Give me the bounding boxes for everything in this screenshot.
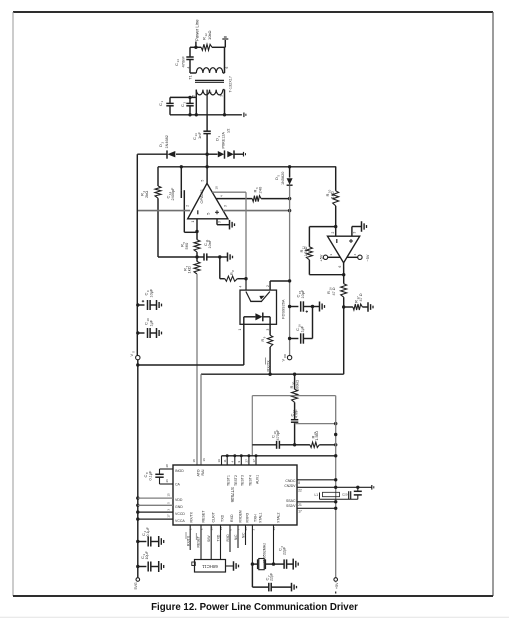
ground at C7 bbox=[292, 583, 297, 592]
capacitor C14 470nF bbox=[186, 57, 193, 60]
svg-text:T1: T1 bbox=[188, 74, 193, 79]
wire right pin3 bbox=[297, 501, 336, 503]
label +5V bbox=[319, 254, 323, 261]
ground at C3 bbox=[159, 561, 164, 572]
U1 label 5 inside bbox=[207, 213, 211, 215]
svg-text:RX/TX: RX/TX bbox=[266, 360, 270, 372]
label 5VG bbox=[134, 582, 138, 589]
IC U3 ST7536 body bbox=[173, 465, 297, 525]
svg-text:CA: CA bbox=[175, 482, 181, 486]
terminal CN bbox=[372, 485, 374, 490]
U1 minus mark bbox=[197, 210, 199, 214]
net label Y0 bbox=[234, 534, 238, 540]
capacitor C4 0.1uF bbox=[138, 537, 159, 547]
resistor R8 gate bbox=[220, 257, 246, 281]
svg-text:2: 2 bbox=[208, 92, 212, 94]
ground at C4 bbox=[159, 536, 164, 547]
label R11 bbox=[299, 246, 308, 257]
svg-text:4: 4 bbox=[186, 67, 190, 69]
U3 pin17 number bbox=[298, 509, 302, 513]
svg-text:ATO: ATO bbox=[196, 469, 200, 476]
label C13 bbox=[192, 132, 202, 140]
svg-text:100kΩ: 100kΩ bbox=[296, 380, 300, 391]
capacitor C12 2400pF bbox=[181, 167, 184, 233]
svg-text:21: 21 bbox=[298, 503, 302, 507]
crystal Y1 11.0592MHz bbox=[252, 559, 273, 570]
svg-text:10nF: 10nF bbox=[208, 239, 212, 248]
terminal line out (right) bbox=[244, 113, 246, 118]
svg-text:−5V: −5V bbox=[366, 254, 370, 261]
terminal +5V bbox=[334, 578, 338, 582]
svg-text:Figure 12. Power Line Communic: Figure 12. Power Line Communication Driv… bbox=[151, 602, 358, 613]
U2 pin3 number bbox=[352, 232, 356, 234]
svg-text:TEST3: TEST3 bbox=[241, 475, 245, 486]
U1 pin3s number bbox=[224, 205, 228, 207]
label R9 bbox=[261, 336, 266, 341]
U3 supply wires bbox=[138, 498, 173, 519]
label -5V bbox=[366, 254, 370, 261]
svg-text:1⁄2: 1⁄2 bbox=[227, 129, 231, 133]
net label S/W bbox=[207, 535, 211, 542]
wire right pin1 bbox=[297, 479, 336, 481]
svg-text:N/C: N/C bbox=[234, 534, 238, 540]
Q1 mosfet symbol bbox=[246, 292, 270, 302]
wire right pin4 bbox=[297, 507, 336, 509]
U2 pin2 number bbox=[331, 232, 335, 234]
svg-text:0.1μF: 0.1μF bbox=[146, 526, 150, 536]
terminal VS bbox=[136, 355, 140, 359]
ground at C11 bbox=[220, 253, 233, 262]
wire to coupling cap bbox=[189, 47, 191, 57]
U3 pin28 number bbox=[165, 464, 169, 468]
svg-text:INGD: INGD bbox=[175, 469, 184, 473]
U1 pin10 number bbox=[214, 186, 218, 190]
transistor Q1 FDS9926A package bbox=[240, 290, 277, 324]
label 68HC11 bbox=[202, 564, 218, 569]
transformer T1 bbox=[190, 47, 225, 115]
U1 plus mark bbox=[215, 210, 219, 214]
label C3 bbox=[140, 550, 149, 559]
svg-text:DD: DD bbox=[283, 354, 287, 358]
label C9 bbox=[143, 288, 153, 297]
wire XTAL2 pin bbox=[272, 525, 275, 566]
wire U2 +IN to ground bbox=[352, 227, 362, 237]
U3 left pin names bbox=[175, 469, 185, 523]
inductor L1 bbox=[323, 492, 340, 496]
Q1 pin1 number bbox=[238, 329, 242, 331]
net label Y5 bbox=[242, 532, 246, 538]
svg-text:P6KE12A: P6KE12A bbox=[222, 132, 226, 149]
svg-text:47 Ω: 47 Ω bbox=[332, 287, 336, 295]
svg-text:3: 3 bbox=[352, 232, 356, 234]
svg-text:22pF: 22pF bbox=[283, 546, 287, 555]
U3 pin8 number bbox=[298, 481, 300, 485]
label R8 bbox=[230, 270, 235, 275]
capacitor C13 1nF bbox=[203, 115, 210, 154]
svg-text:C20: C20 bbox=[342, 492, 348, 496]
svg-text:XTAL2: XTAL2 bbox=[277, 513, 281, 523]
U2 plus mark bbox=[349, 239, 353, 243]
svg-text:2kΩ: 2kΩ bbox=[144, 191, 149, 198]
wire RXPO pin bbox=[245, 525, 247, 545]
caption bbox=[151, 602, 358, 613]
net label RXD bbox=[226, 534, 230, 542]
wire node A bbox=[158, 255, 199, 258]
wire U1 feedback pin1 bbox=[195, 219, 198, 233]
filter box (gray) bbox=[252, 396, 335, 456]
footer rule bbox=[0, 616, 509, 618]
svg-text:240: 240 bbox=[258, 186, 263, 193]
label +5V bbox=[335, 582, 339, 594]
capacitor C7 22pF bbox=[269, 583, 292, 592]
C15 plus mark bbox=[306, 310, 308, 312]
ground at C15 bbox=[313, 302, 325, 312]
label C12 bbox=[166, 187, 176, 201]
label D5 bbox=[274, 172, 285, 185]
svg-text:5: 5 bbox=[207, 213, 211, 215]
svg-text:8: 8 bbox=[298, 481, 300, 485]
svg-text:470nF: 470nF bbox=[180, 56, 185, 68]
svg-text:N/C: N/C bbox=[242, 532, 246, 538]
pin number 4 (T1) bbox=[186, 67, 190, 69]
wire U2 -IN bbox=[309, 225, 337, 236]
svg-text:47nF: 47nF bbox=[294, 409, 298, 418]
svg-text:26: 26 bbox=[165, 479, 169, 483]
svg-text:+5V: +5V bbox=[319, 254, 323, 261]
capacitor C20 bbox=[349, 491, 351, 499]
resistor R6 240 bbox=[252, 196, 291, 202]
wire VS rail upper bbox=[136, 154, 139, 355]
svg-text:RXPO: RXPO bbox=[245, 513, 249, 523]
pin number 6 (T1) bbox=[225, 67, 229, 69]
wire RXDEM pin bbox=[237, 525, 239, 548]
svg-text:TXD: TXD bbox=[217, 534, 221, 541]
capacitor C8 bbox=[155, 469, 173, 484]
label C11 bbox=[203, 239, 212, 248]
wire secondary bottom bbox=[170, 113, 242, 116]
svg-text:VCCA: VCCA bbox=[175, 519, 185, 523]
wire U1 pin4 to R6 bbox=[216, 198, 252, 200]
wire sense line down bbox=[343, 307, 345, 374]
resistor R7 1kOhm bbox=[194, 257, 200, 274]
capacitor C15 10uF bbox=[290, 301, 315, 311]
wire RESET pin bbox=[200, 525, 202, 560]
label R12 bbox=[201, 31, 212, 40]
wire right pin2 bbox=[297, 486, 372, 489]
net label Power Line bbox=[195, 19, 200, 41]
net label RX/TX bbox=[266, 358, 271, 372]
svg-text:RESET: RESET bbox=[201, 510, 205, 523]
label C6 bbox=[277, 546, 286, 556]
svg-text:CN2DV: CN2DV bbox=[284, 484, 296, 488]
wire R11 to U2 output bbox=[309, 273, 345, 276]
U1 pin3 number bbox=[218, 221, 222, 223]
svg-text:10μF: 10μF bbox=[149, 288, 153, 297]
U1 pin5 number bbox=[201, 180, 205, 182]
wire U1 gate drive (thin) bbox=[212, 191, 246, 193]
pin number 3 (T1) bbox=[219, 95, 223, 97]
label R10 bbox=[325, 189, 334, 198]
capacitor C18 470pF bbox=[277, 441, 295, 449]
C9 plus mark bbox=[142, 300, 144, 302]
svg-text:VCCD: VCCD bbox=[175, 512, 185, 516]
label T1 part number bbox=[229, 76, 233, 92]
label U1 part bbox=[199, 189, 204, 203]
svg-text:0.1μF: 0.1μF bbox=[148, 470, 152, 480]
U3 pin16 number bbox=[202, 458, 206, 462]
ground at R17 bbox=[368, 302, 373, 312]
svg-text:1.5kΩ: 1.5kΩ bbox=[315, 431, 319, 441]
wire cluster bottom bbox=[320, 493, 358, 500]
label VS bbox=[129, 351, 135, 357]
capacitor C19 47nF bbox=[291, 420, 298, 447]
label FDS9926A bbox=[280, 299, 285, 319]
svg-text:1N5820: 1N5820 bbox=[281, 172, 285, 185]
microcontroller 68HC11 box bbox=[192, 560, 226, 573]
wire VS rail lower bbox=[136, 360, 139, 578]
label C16 bbox=[295, 324, 305, 333]
label R7 bbox=[183, 266, 192, 274]
label R21 bbox=[310, 431, 319, 441]
ground at C10 bbox=[157, 328, 162, 338]
wire secondary left pin drop bbox=[195, 97, 197, 114]
U2 -5V pin bbox=[347, 255, 362, 259]
svg-text:CNDC: CNDC bbox=[285, 479, 296, 483]
svg-text:19: 19 bbox=[217, 459, 221, 463]
svg-text:TXD: TXD bbox=[220, 514, 224, 522]
wire VDD rail bbox=[288, 186, 291, 356]
svg-text:1kΩ: 1kΩ bbox=[187, 266, 192, 273]
label C2 bbox=[180, 102, 186, 108]
svg-text:CLR/T: CLR/T bbox=[211, 511, 215, 522]
U3 pin18 number bbox=[192, 459, 196, 463]
resistor R21 1.5kOhm bbox=[295, 442, 338, 447]
svg-text:2: 2 bbox=[186, 205, 190, 207]
wire TXD pin bbox=[220, 525, 222, 560]
U3 right pin names bbox=[284, 479, 296, 508]
label C15 bbox=[295, 289, 305, 298]
capacitor C10 1uF bbox=[138, 328, 157, 338]
Q1 drain wire bbox=[270, 281, 290, 290]
resistor R5 560 bbox=[194, 232, 200, 258]
wire sense to RAI bbox=[201, 373, 344, 376]
svg-text:L1: L1 bbox=[314, 493, 318, 497]
diode D5 1N5820 bbox=[287, 167, 293, 185]
label C20 bbox=[342, 492, 348, 496]
label C1 bbox=[158, 101, 164, 107]
svg-text:RAI: RAI bbox=[201, 470, 205, 476]
terminal 5VG bbox=[136, 578, 140, 582]
svg-text:SSAC: SSAC bbox=[286, 499, 296, 503]
ground at C6 bbox=[293, 559, 298, 570]
label R20 bbox=[289, 380, 299, 391]
svg-text:2: 2 bbox=[331, 232, 335, 234]
diode D1b bbox=[227, 150, 234, 158]
svg-text:4: 4 bbox=[239, 286, 243, 288]
svg-text:10kΩ: 10kΩ bbox=[207, 31, 212, 40]
svg-text:470pF: 470pF bbox=[276, 429, 280, 440]
svg-text:3: 3 bbox=[219, 95, 223, 97]
svg-text:XTAL1: XTAL1 bbox=[259, 513, 263, 523]
svg-text:22pF: 22pF bbox=[270, 572, 274, 581]
svg-text:RX/TX: RX/TX bbox=[187, 535, 191, 546]
pin number 2 (T1) bbox=[208, 92, 212, 94]
label C19 bbox=[289, 409, 298, 418]
svg-text:68HC11: 68HC11 bbox=[202, 564, 218, 569]
Q1 source wires bbox=[244, 317, 270, 325]
svg-text:1: 1 bbox=[238, 329, 242, 331]
resistor R10 1kOhm bbox=[333, 167, 339, 227]
wire filter bottom bbox=[252, 444, 276, 446]
svg-text:28: 28 bbox=[165, 464, 169, 468]
terminal VDD bbox=[287, 355, 291, 359]
wire RXD pin bbox=[229, 525, 231, 552]
svg-text:+5V: +5V bbox=[335, 582, 339, 589]
label D2 bbox=[158, 135, 169, 148]
svg-text:10μF: 10μF bbox=[145, 550, 149, 559]
U1 pin1 number bbox=[191, 221, 195, 223]
Q1 body diode bbox=[244, 313, 270, 322]
ground at C9 bbox=[157, 300, 162, 310]
svg-text:ST7536: ST7536 bbox=[230, 487, 235, 503]
wire XTAL1 pin bbox=[251, 525, 254, 566]
wire U1 +IN pin to ground bbox=[217, 219, 230, 225]
resistor R20 100kOhm bbox=[292, 374, 298, 420]
svg-text:RX/TX: RX/TX bbox=[189, 511, 193, 522]
capacitor C2 bbox=[186, 97, 193, 114]
U3 supply pin numbers bbox=[167, 493, 171, 518]
label 12 under node bbox=[227, 129, 231, 133]
svg-text:1μF: 1μF bbox=[301, 325, 305, 332]
svg-text:22: 22 bbox=[298, 489, 302, 493]
ground at 68HC11 bbox=[226, 561, 239, 571]
svg-text:47 Ω: 47 Ω bbox=[359, 293, 363, 301]
capacitor C21 bbox=[354, 487, 362, 499]
U1 pin4 number bbox=[220, 195, 224, 197]
wire VS horizontal bbox=[138, 364, 244, 366]
svg-text:TXIH: TXIH bbox=[253, 514, 257, 522]
net label RX/TX bottom bbox=[186, 532, 191, 546]
svg-text:GND: GND bbox=[175, 505, 183, 509]
svg-text:AUX1: AUX1 bbox=[255, 475, 259, 484]
svg-text:2400pF: 2400pF bbox=[171, 187, 175, 201]
label C14 bbox=[174, 56, 186, 68]
U2 +5V pin bbox=[323, 255, 340, 259]
svg-text:17: 17 bbox=[298, 509, 302, 513]
wire secondary top bbox=[170, 96, 196, 99]
wire R7 to ATO (gray) bbox=[196, 274, 198, 465]
wire U2 output bbox=[343, 263, 345, 275]
Q1 pin2 number bbox=[266, 285, 270, 287]
capacitor C16 1uF bbox=[290, 333, 313, 343]
svg-text:RXD: RXD bbox=[226, 534, 230, 542]
resistor R17 47Ohm bbox=[344, 304, 368, 310]
label VDD bbox=[281, 354, 287, 362]
net label RESET bbox=[196, 533, 200, 548]
svg-text:TEST1: TEST1 bbox=[227, 475, 231, 486]
svg-text:27: 27 bbox=[245, 459, 249, 463]
U3 pin name RAI bbox=[201, 470, 205, 476]
wire C16 to ground node bbox=[312, 307, 314, 339]
svg-text:17: 17 bbox=[167, 514, 171, 518]
label L1 bbox=[314, 493, 318, 497]
wire CLR pin bbox=[210, 525, 212, 560]
svg-text:6: 6 bbox=[338, 266, 342, 268]
svg-text:S: S bbox=[132, 351, 136, 353]
svg-text:15: 15 bbox=[167, 493, 171, 497]
label T1 bbox=[188, 74, 193, 79]
ground at U1 +IN bbox=[230, 220, 235, 230]
wire U1 right power (gray) bbox=[223, 209, 291, 212]
U3 pin21 number bbox=[298, 503, 302, 507]
wire TEST rail bbox=[222, 454, 336, 465]
label D1 bbox=[214, 132, 225, 149]
capacitor C6 22pF bbox=[274, 559, 294, 568]
svg-text:6: 6 bbox=[225, 67, 229, 69]
U3 pin name ATO bbox=[196, 469, 200, 476]
wire C19 to rail bbox=[295, 422, 338, 425]
U2 pin7 number bbox=[329, 254, 333, 256]
U3 bottom pin names bbox=[189, 510, 280, 523]
svg-text:1N4682: 1N4682 bbox=[165, 135, 169, 148]
op-amp U2 bbox=[328, 236, 360, 263]
U2 pin6 number bbox=[338, 266, 342, 268]
net label TXD bbox=[217, 534, 221, 541]
terminal clamp (right) bbox=[244, 152, 246, 157]
svg-text:3: 3 bbox=[218, 221, 222, 223]
wire XTAL1 down bbox=[252, 564, 268, 587]
svg-text:Power Line: Power Line bbox=[195, 19, 200, 41]
svg-text:S/W: S/W bbox=[207, 535, 211, 542]
svg-text:10: 10 bbox=[214, 186, 218, 190]
label C7 bbox=[264, 572, 273, 581]
svg-text:16: 16 bbox=[202, 458, 206, 462]
wire output stub U1 bbox=[206, 154, 208, 183]
svg-text:5VG: 5VG bbox=[134, 582, 138, 589]
svg-text:1kΩ: 1kΩ bbox=[329, 191, 334, 198]
label R5 bbox=[180, 242, 189, 250]
Q1 pin4 number bbox=[239, 286, 243, 288]
svg-text:1nF: 1nF bbox=[197, 132, 202, 139]
wire U1 IN- (gray) bbox=[137, 210, 190, 212]
svg-text:1μF: 1μF bbox=[149, 319, 153, 326]
label R4 bbox=[140, 191, 150, 199]
svg-text:5: 5 bbox=[201, 180, 205, 182]
capacitor C9 10uF bbox=[138, 300, 157, 310]
U2 pin4 number bbox=[353, 254, 357, 256]
Q1 pin3 number bbox=[266, 329, 270, 331]
wire Q1 source to VS bbox=[243, 324, 245, 365]
capacitor C1 bbox=[166, 97, 173, 114]
label C8 bbox=[143, 470, 153, 480]
wire C12 to inverting node bbox=[184, 231, 197, 233]
svg-text:18: 18 bbox=[192, 459, 196, 463]
wire power line stub bbox=[194, 42, 197, 50]
svg-text:1.5kΩ: 1.5kΩ bbox=[304, 246, 308, 256]
wire RX/TX pin bbox=[189, 525, 191, 550]
label R6 bbox=[252, 186, 262, 193]
svg-text:TEST2: TEST2 bbox=[234, 475, 238, 486]
U3 TEST pin names bbox=[227, 475, 260, 486]
label C10 bbox=[143, 318, 153, 327]
svg-text:T-132X17: T-132X17 bbox=[229, 76, 233, 92]
label R16 bbox=[326, 287, 336, 296]
label ST7536 bbox=[230, 487, 235, 503]
svg-text:FDS9926A: FDS9926A bbox=[280, 299, 285, 319]
wire gate vertical bbox=[244, 192, 247, 290]
wire RAI drop (gray) bbox=[200, 374, 202, 465]
svg-text:SS2/V: SS2/V bbox=[286, 504, 296, 508]
